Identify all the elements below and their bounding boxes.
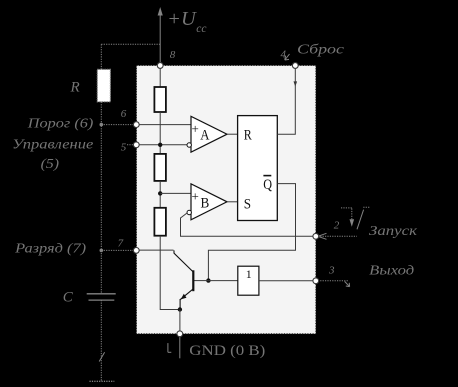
svg-text:Выход: Выход bbox=[369, 263, 414, 278]
Q overbar bbox=[263, 175, 271, 177]
resistor divider R2 bbox=[154, 154, 166, 181]
wire base node to buffer bbox=[208, 280, 237, 282]
pin 8 bbox=[157, 63, 163, 69]
pin 1 bbox=[177, 331, 183, 337]
svg-text:+: + bbox=[192, 121, 199, 136]
wire pin7 to collector bbox=[139, 249, 174, 251]
resistor divider R3 bbox=[154, 208, 166, 236]
svg-text:6: 6 bbox=[121, 108, 127, 120]
wire +Ucc vertical lead bbox=[159, 14, 161, 64]
node emitter junction bbox=[178, 307, 182, 311]
arrow +Ucc bbox=[158, 7, 163, 16]
svg-text:R: R bbox=[244, 127, 252, 143]
wire pin6 to comparator A bbox=[139, 124, 191, 126]
wire divider segment 2 bbox=[159, 181, 161, 208]
wire R top lead bbox=[100, 44, 102, 69]
svg-text:Порог (6): Порог (6) bbox=[27, 117, 94, 132]
wire pin3 lead bbox=[318, 280, 349, 282]
GND lead below pin1 bbox=[179, 336, 181, 358]
wire emitter node to pin1 bbox=[179, 310, 181, 332]
wire divider tap to comparator B bbox=[160, 192, 191, 194]
svg-text:Сброс: Сброс bbox=[297, 42, 345, 57]
svg-text:+: + bbox=[192, 188, 199, 203]
buffer box 1 bbox=[238, 266, 259, 295]
arrow mark on wire bbox=[99, 352, 104, 361]
svg-text:A: A bbox=[200, 127, 209, 143]
pin 7 bbox=[133, 248, 139, 254]
svg-text:1: 1 bbox=[246, 267, 252, 281]
transistor Q1 discharge bbox=[174, 250, 193, 309]
wire pin7 lead bbox=[101, 249, 133, 251]
resistor R bbox=[97, 69, 110, 101]
pin 5 bbox=[133, 142, 139, 148]
trigger pulse waveform bbox=[341, 207, 370, 229]
node divider tap 2 bbox=[158, 191, 162, 195]
capacitor C bbox=[87, 294, 116, 300]
arrow mark pin3 bbox=[345, 281, 350, 286]
svg-text:C: C bbox=[63, 290, 74, 306]
IC body (timer chip outline, dotted) bbox=[137, 66, 316, 334]
wire pin5 stub bbox=[127, 144, 134, 146]
resistor divider R1 bbox=[154, 87, 166, 112]
wire buffer output to pin3 bbox=[259, 280, 314, 282]
wire Qbar to transistor base bbox=[208, 184, 295, 281]
wire below capacitor bbox=[100, 300, 102, 381]
pin 2 bbox=[313, 233, 319, 239]
wire left branch vertical bbox=[100, 102, 102, 294]
svg-text:cc: cc bbox=[196, 23, 206, 35]
svg-text:2: 2 bbox=[334, 220, 340, 232]
wire pin8 to divider bbox=[159, 68, 161, 88]
wire divider segment 1 bbox=[159, 112, 161, 154]
arrow into pin2 bbox=[318, 233, 327, 239]
svg-text:5: 5 bbox=[121, 141, 127, 153]
GND corner mark bbox=[168, 343, 171, 352]
wire divider bottom to emitter node bbox=[160, 236, 180, 310]
svg-text:Разряд (7): Разряд (7) bbox=[14, 242, 87, 257]
emitter arrow bbox=[181, 294, 187, 300]
pin 3 bbox=[313, 278, 319, 284]
arrow mark pin4 bbox=[285, 54, 290, 60]
svg-text:B: B bbox=[201, 196, 210, 212]
wire top branch to R bbox=[101, 43, 160, 45]
wire pin4 reset to flip-flop bbox=[277, 68, 295, 134]
svg-text:GND (0 В): GND (0 В) bbox=[189, 343, 265, 359]
wire base node to transistor bbox=[194, 280, 208, 282]
wire pin2 lead bbox=[318, 235, 357, 237]
wire B inverting input to pin2 bbox=[181, 213, 314, 236]
node base junction bbox=[206, 278, 210, 282]
svg-text:(5): (5) bbox=[41, 157, 60, 172]
arrow tick on reset line bbox=[294, 81, 298, 86]
ground bar left bbox=[90, 380, 115, 382]
svg-text:Управление: Управление bbox=[12, 138, 93, 153]
wire A output to R bbox=[227, 133, 238, 135]
svg-text:R: R bbox=[70, 80, 80, 96]
pin 6 bbox=[133, 122, 139, 128]
svg-text:Запуск: Запуск bbox=[369, 224, 418, 239]
wire B output to S bbox=[227, 201, 238, 203]
svg-text:S: S bbox=[244, 197, 251, 213]
svg-text:3: 3 bbox=[328, 265, 335, 277]
pin 4 bbox=[292, 63, 298, 69]
node divider tap 1 bbox=[158, 143, 162, 147]
comparator B bbox=[191, 184, 227, 220]
svg-text:Q: Q bbox=[263, 177, 272, 193]
wire pin5 to comparator A inverting bbox=[139, 144, 187, 146]
svg-text:7: 7 bbox=[118, 237, 124, 249]
comparator A bbox=[191, 116, 227, 152]
svg-text:8: 8 bbox=[170, 49, 176, 61]
svg-text:+U: +U bbox=[167, 8, 197, 30]
wire pin6 lead bbox=[101, 124, 133, 126]
node junction threshold bbox=[100, 123, 104, 127]
flip-flop bbox=[238, 116, 278, 221]
node junction discharge bbox=[100, 249, 104, 253]
